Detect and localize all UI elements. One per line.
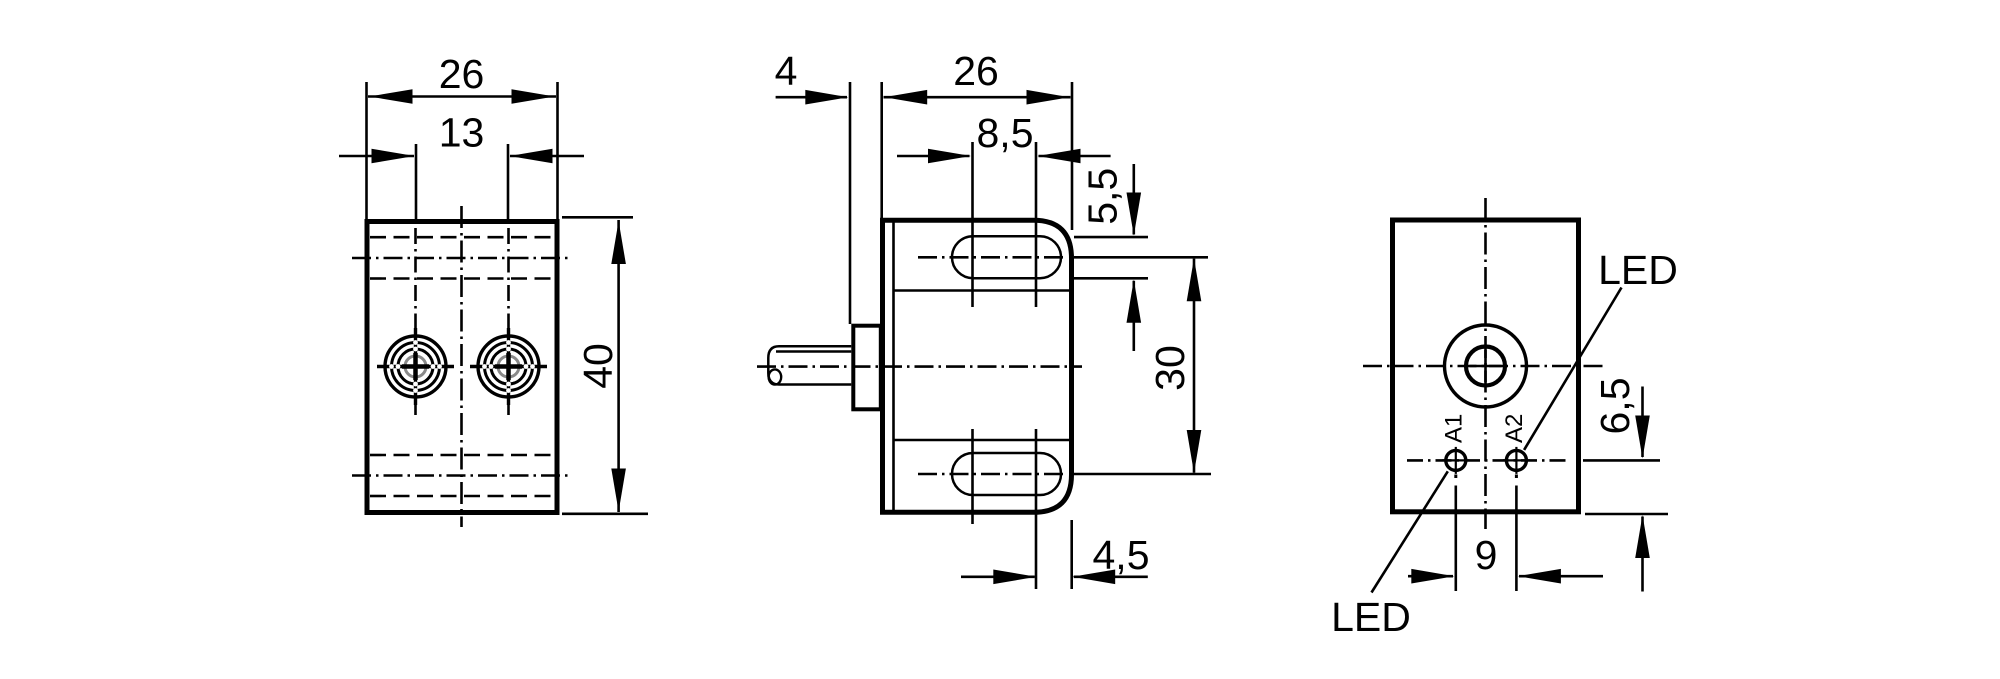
dim 26 mid line with arrows xyxy=(884,96,1071,99)
dashed internal line top2 xyxy=(370,277,555,280)
dashed internal line top xyxy=(370,236,555,239)
mounting face inner line xyxy=(892,221,895,510)
flange line lower xyxy=(894,439,1070,442)
dim 26 mid extension lines xyxy=(880,82,883,218)
dim 26 line with arrows xyxy=(368,95,556,98)
dim 30 line with arrows xyxy=(1193,259,1196,473)
dim 8,5 arrows outside xyxy=(897,155,970,158)
hole2 vertical dash-dot centerline xyxy=(507,228,510,418)
dash-dot slot centerline top xyxy=(352,257,571,260)
svg-text:A2: A2 xyxy=(1501,414,1528,443)
svg-text:26: 26 xyxy=(439,51,485,97)
hole1 threaded rings xyxy=(377,328,454,405)
flange line upper xyxy=(894,289,1070,292)
cable end ellipse xyxy=(769,369,782,384)
svg-text:8,5: 8,5 xyxy=(977,110,1034,156)
LED A2 circle xyxy=(1506,450,1526,470)
cable sleeve xyxy=(768,346,851,384)
svg-text:LED: LED xyxy=(1598,247,1678,293)
svg-text:40: 40 xyxy=(575,343,621,389)
bottom slot dash-dot centerline xyxy=(918,473,1068,476)
svg-text:LED: LED xyxy=(1331,594,1411,640)
dashed internal line bottom xyxy=(370,454,555,457)
top slot xyxy=(952,236,1061,278)
dim 13 extension lines xyxy=(415,144,418,219)
LED leader line to A2 xyxy=(1524,288,1621,450)
dim 4 extension line xyxy=(849,82,852,324)
dim 5,5 extension lines xyxy=(1074,236,1148,239)
LED A1 circle xyxy=(1446,450,1466,470)
dim 9 arrows outside xyxy=(1408,575,1453,578)
dim 4 arrow xyxy=(776,96,847,99)
bottom slot arc-center ticks xyxy=(971,429,974,524)
vertical center axis dash-dot xyxy=(1484,198,1487,529)
top slot arc-center ticks / 8,5 extension lines xyxy=(971,142,974,307)
main horizontal axis dash-dot xyxy=(757,365,1082,368)
dash-dot slot centerline bottom xyxy=(352,474,571,477)
LED dash-dot line xyxy=(1407,459,1570,462)
dim 26 extension lines xyxy=(365,82,368,219)
dim 5,5 arrows outside xyxy=(1133,164,1136,235)
svg-text:9: 9 xyxy=(1475,532,1498,578)
dim 4,5 extension line right xyxy=(1070,520,1073,589)
svg-text:4,5: 4,5 xyxy=(1093,532,1150,578)
svg-text:4: 4 xyxy=(775,48,798,94)
top slot dash-dot centerline xyxy=(918,256,1068,259)
horizontal center axis dash-dot xyxy=(1363,365,1604,368)
vertical center dash-dot axis xyxy=(460,206,463,527)
short dash-dot below LEDs xyxy=(1454,475,1457,479)
connector plug xyxy=(853,326,881,410)
sensor body front outline xyxy=(367,222,557,513)
sensing face hole inner circle xyxy=(1466,347,1505,386)
hole2 threaded rings xyxy=(470,328,547,405)
svg-text:A1: A1 xyxy=(1440,414,1467,443)
svg-text:13: 13 xyxy=(439,110,485,156)
cable inner line xyxy=(776,350,851,353)
svg-text:26: 26 xyxy=(953,48,999,94)
svg-text:6,5: 6,5 xyxy=(1592,378,1638,435)
LED leader line to A1 xyxy=(1372,471,1448,592)
hole center cross xyxy=(1470,365,1502,368)
dim 40 line with arrows xyxy=(617,220,620,512)
sensor body side outline xyxy=(883,220,1072,512)
sensor body back outline xyxy=(1393,220,1579,512)
bottom slot xyxy=(952,453,1061,495)
dim 40 extension lines xyxy=(562,216,633,219)
dim 9 extension lines xyxy=(1455,486,1458,592)
dim 4,5 arrows outside xyxy=(961,575,1035,578)
dim 30 extension lines xyxy=(1074,256,1208,259)
svg-text:5,5: 5,5 xyxy=(1079,168,1125,225)
hole1 vertical dash-dot centerline xyxy=(414,228,417,418)
dim 13 arrows outside xyxy=(339,155,414,158)
svg-text:30: 30 xyxy=(1147,345,1193,391)
dashed internal line bottom2 xyxy=(370,495,555,498)
sensing face hole outer circle xyxy=(1445,325,1527,407)
dim 6,5 extension lines xyxy=(1583,459,1660,462)
dim 6,5 arrows outside xyxy=(1641,387,1644,458)
